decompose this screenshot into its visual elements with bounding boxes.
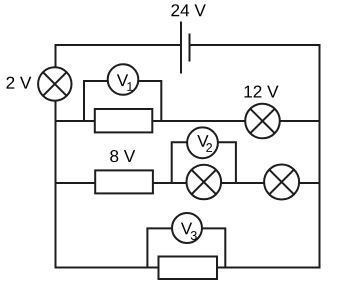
lamp L1 2V <box>38 67 71 100</box>
resistor R2 8V <box>95 170 153 193</box>
wire voltmeter V2 loop <box>172 142 236 183</box>
battery B1 long plate <box>180 22 182 74</box>
label 12 V <box>245 85 279 97</box>
label 24 V <box>171 4 205 16</box>
battery B1 short plate <box>189 34 191 62</box>
lamp L3 middle branch <box>187 165 222 200</box>
wire branch 2 <box>56 182 320 184</box>
wire top right <box>190 44 320 46</box>
wire branch 1 <box>56 120 320 122</box>
voltmeter V2 circle <box>187 127 218 158</box>
resistor R3 <box>159 257 218 280</box>
label V3 <box>181 223 197 240</box>
voltmeter V3 circle <box>172 213 202 243</box>
wire right rail <box>319 44 321 269</box>
label 8 V <box>110 150 135 162</box>
label V2 <box>197 135 212 152</box>
label 2 V <box>6 77 31 89</box>
lamp L2 12V <box>245 104 280 139</box>
voltmeter V1 circle <box>108 64 139 95</box>
resistor R1 <box>95 109 153 132</box>
wire bottom <box>56 267 320 269</box>
wire voltmeter V1 loop <box>84 81 161 121</box>
lamp L4 right middle branch <box>264 165 299 200</box>
wire left rail <box>55 44 57 269</box>
wire top left <box>56 44 182 46</box>
wire voltmeter V3 loop <box>147 228 225 267</box>
label V1 <box>117 74 133 90</box>
